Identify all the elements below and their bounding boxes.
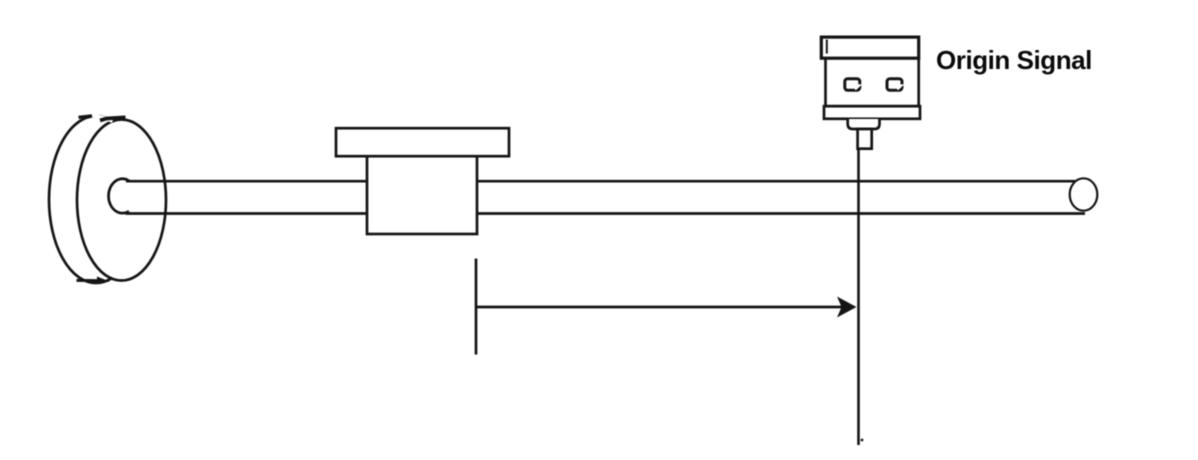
sensor right eye: [887, 79, 902, 90]
shaft right end cap: [1070, 178, 1098, 210]
sensor vertical detection line: [857, 148, 860, 445]
shaft hub arc: [109, 179, 129, 213]
disc front face top flat edge: [100, 117, 126, 120]
shaft top line: [126, 180, 1079, 183]
sensor left eye: [845, 79, 860, 90]
motor disc back rim: [49, 116, 143, 283]
sensor left eye notch: [853, 84, 863, 90]
sensor connector stem: [858, 129, 872, 149]
disc back rim top flat edge: [79, 116, 93, 118]
distance arrow head: [837, 297, 857, 318]
sensor right eye notch: [895, 84, 905, 90]
carriage block: [367, 156, 477, 234]
sensor cap inner tick: [826, 40, 828, 54]
motor disc front face: [77, 120, 166, 281]
sensor body: [826, 58, 919, 106]
shaft bottom line: [126, 212, 1086, 215]
svg-text:Origin Signal: Origin Signal: [936, 45, 1092, 75]
sensor bottom strip: [824, 106, 920, 119]
disc rim bottom junction wedge: [97, 277, 110, 282]
disc rim top gap (white): [92, 116, 113, 122]
sensor connector collar: [848, 119, 880, 129]
sensor top cap: [821, 37, 918, 58]
stray dot at line end: [861, 439, 864, 442]
disc back rim bottom flat edge: [77, 279, 105, 282]
distance arrow shaft: [476, 306, 843, 309]
carriage table plate: [336, 128, 509, 156]
distance start tick: [475, 259, 478, 355]
